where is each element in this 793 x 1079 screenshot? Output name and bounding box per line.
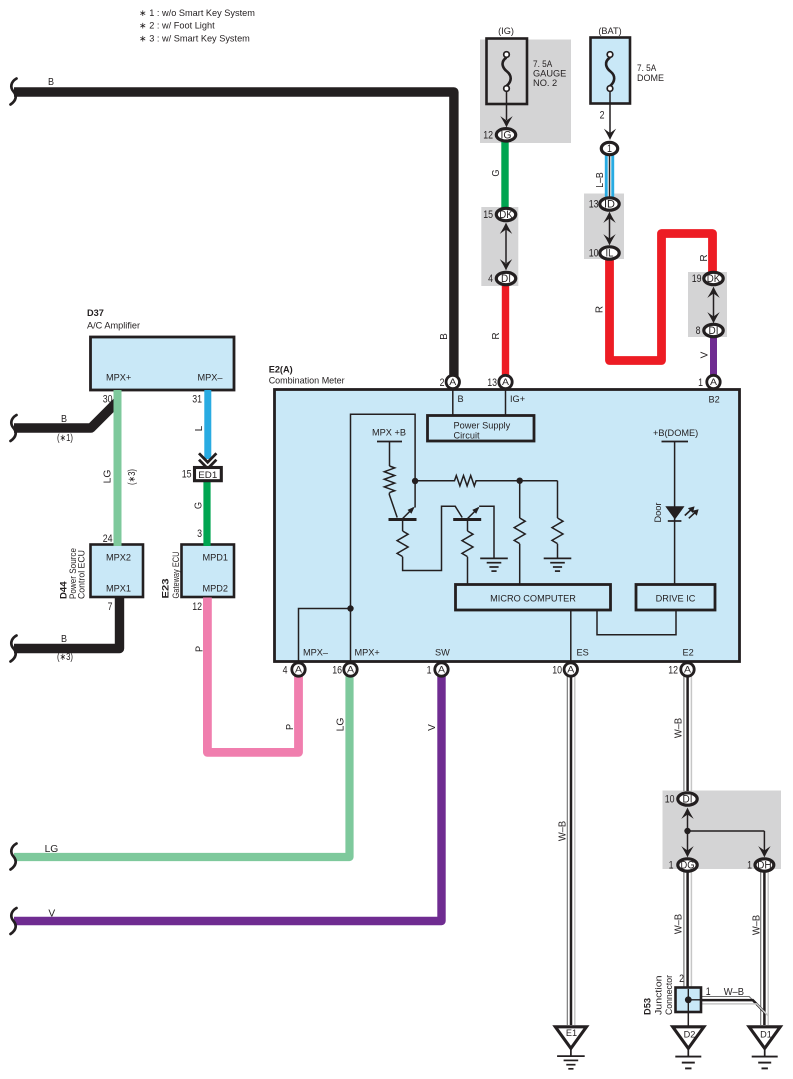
svg-text:DI: DI bbox=[501, 273, 511, 285]
svg-text:R: R bbox=[491, 332, 502, 339]
svg-text:DG: DG bbox=[681, 860, 695, 872]
svg-text:7. 5A: 7. 5A bbox=[533, 59, 553, 69]
svg-text:30: 30 bbox=[103, 394, 113, 406]
svg-text:1: 1 bbox=[747, 860, 752, 872]
svg-text:ID: ID bbox=[604, 199, 615, 211]
svg-text:E1: E1 bbox=[566, 1028, 577, 1038]
svg-text:MPX2: MPX2 bbox=[106, 553, 131, 563]
svg-text:D53: D53 bbox=[643, 998, 653, 1015]
svg-text:10: 10 bbox=[665, 794, 675, 806]
svg-text:ES: ES bbox=[577, 648, 589, 658]
svg-text:E23: E23 bbox=[161, 579, 171, 599]
svg-text:Control ECU: Control ECU bbox=[77, 550, 87, 599]
svg-text:∗ 2 : w/ Foot Light: ∗ 2 : w/ Foot Light bbox=[139, 21, 215, 31]
svg-text:1: 1 bbox=[607, 143, 612, 155]
svg-text:2: 2 bbox=[440, 377, 445, 389]
svg-text:(∗3): (∗3) bbox=[127, 469, 138, 485]
svg-text:A: A bbox=[684, 665, 692, 675]
svg-text:DH: DH bbox=[757, 860, 772, 872]
svg-text:A: A bbox=[502, 377, 510, 387]
svg-text:MICRO COMPUTER: MICRO COMPUTER bbox=[490, 594, 576, 604]
svg-text:MPD1: MPD1 bbox=[203, 553, 229, 563]
svg-text:4: 4 bbox=[283, 665, 288, 677]
svg-text:3: 3 bbox=[197, 528, 202, 540]
svg-text:MPX–: MPX– bbox=[303, 648, 329, 658]
svg-text:DK: DK bbox=[707, 273, 721, 285]
svg-text:R: R bbox=[595, 306, 606, 313]
svg-text:IG: IG bbox=[501, 129, 512, 141]
svg-text:12: 12 bbox=[483, 129, 493, 141]
svg-text:D1: D1 bbox=[760, 1030, 772, 1040]
svg-text:DI: DI bbox=[683, 794, 693, 806]
svg-text:ED1: ED1 bbox=[198, 470, 217, 480]
svg-text:W–B: W–B bbox=[674, 914, 685, 934]
svg-text:MPD2: MPD2 bbox=[203, 584, 229, 594]
svg-text:A: A bbox=[347, 665, 355, 675]
svg-text:R: R bbox=[699, 254, 710, 261]
svg-text:4: 4 bbox=[488, 273, 493, 285]
svg-text:L–B: L–B bbox=[595, 172, 606, 188]
svg-text:A: A bbox=[710, 377, 718, 387]
svg-text:Combination Meter: Combination Meter bbox=[269, 375, 345, 385]
svg-text:B: B bbox=[439, 333, 450, 340]
svg-text:A: A bbox=[295, 665, 303, 675]
svg-text:1: 1 bbox=[427, 665, 432, 677]
svg-text:B: B bbox=[458, 394, 464, 404]
svg-text:13: 13 bbox=[487, 377, 497, 389]
svg-text:DI: DI bbox=[709, 325, 719, 337]
svg-text:W–B: W–B bbox=[674, 718, 685, 738]
svg-text:16: 16 bbox=[332, 665, 342, 677]
svg-text:B: B bbox=[61, 414, 67, 425]
svg-text:(∗1): (∗1) bbox=[57, 433, 73, 444]
svg-text:Junction: Junction bbox=[654, 976, 664, 1016]
svg-text:D37: D37 bbox=[87, 308, 104, 318]
svg-text:LG: LG bbox=[103, 470, 114, 484]
svg-text:12: 12 bbox=[192, 601, 202, 613]
svg-text:∗ 3 : w/ Smart Key System: ∗ 3 : w/ Smart Key System bbox=[139, 33, 250, 43]
svg-text:W–B: W–B bbox=[724, 987, 744, 998]
svg-text:(BAT): (BAT) bbox=[598, 26, 621, 36]
svg-text:7: 7 bbox=[108, 601, 113, 613]
svg-text:A: A bbox=[567, 665, 575, 675]
svg-text:(∗3): (∗3) bbox=[57, 652, 73, 663]
svg-text:DK: DK bbox=[499, 209, 513, 221]
svg-text:31: 31 bbox=[192, 394, 202, 406]
svg-text:E2(A): E2(A) bbox=[269, 364, 293, 374]
svg-text:A: A bbox=[438, 665, 446, 675]
svg-text:2: 2 bbox=[600, 110, 605, 122]
svg-text:IL: IL bbox=[606, 248, 614, 260]
svg-text:+B(DOME): +B(DOME) bbox=[653, 428, 698, 438]
svg-text:L: L bbox=[194, 425, 205, 431]
svg-text:12: 12 bbox=[668, 665, 678, 677]
svg-text:1: 1 bbox=[669, 860, 674, 872]
svg-text:1: 1 bbox=[698, 377, 703, 389]
svg-text:Power Supply: Power Supply bbox=[454, 421, 511, 431]
svg-text:LG: LG bbox=[45, 844, 59, 855]
svg-text:NO. 2: NO. 2 bbox=[533, 78, 557, 88]
svg-text:∗ 1 : w/o Smart Key System: ∗ 1 : w/o Smart Key System bbox=[139, 8, 255, 18]
svg-text:V: V bbox=[48, 909, 55, 920]
svg-text:7. 5A: 7. 5A bbox=[637, 63, 657, 73]
svg-text:MPX+: MPX+ bbox=[355, 648, 380, 658]
svg-text:10: 10 bbox=[552, 665, 562, 677]
svg-text:A/C Amplifier: A/C Amplifier bbox=[87, 321, 140, 331]
svg-text:V: V bbox=[427, 724, 438, 731]
svg-text:V: V bbox=[700, 351, 711, 358]
svg-text:15: 15 bbox=[483, 209, 493, 221]
svg-text:15: 15 bbox=[182, 469, 192, 481]
svg-text:LG: LG bbox=[336, 718, 347, 732]
svg-text:D2: D2 bbox=[684, 1030, 696, 1040]
svg-text:P: P bbox=[285, 724, 296, 730]
svg-text:MPX1: MPX1 bbox=[106, 584, 131, 594]
svg-text:2: 2 bbox=[679, 973, 684, 985]
svg-text:Door: Door bbox=[653, 503, 663, 523]
svg-text:10: 10 bbox=[589, 248, 599, 260]
svg-text:SW: SW bbox=[435, 648, 450, 658]
svg-text:G: G bbox=[491, 169, 502, 176]
svg-text:19: 19 bbox=[692, 273, 702, 285]
svg-text:P: P bbox=[195, 646, 206, 652]
svg-text:B2: B2 bbox=[709, 395, 720, 405]
svg-text:A: A bbox=[449, 377, 457, 387]
svg-text:Circuit: Circuit bbox=[454, 431, 480, 441]
svg-text:G: G bbox=[194, 502, 205, 509]
svg-text:13: 13 bbox=[589, 199, 599, 211]
svg-text:IG+: IG+ bbox=[510, 394, 525, 404]
svg-text:(IG): (IG) bbox=[498, 26, 514, 36]
svg-text:MPX–: MPX– bbox=[198, 373, 224, 383]
svg-text:24: 24 bbox=[103, 533, 113, 545]
svg-text:1: 1 bbox=[706, 986, 711, 998]
svg-text:GAUGE: GAUGE bbox=[533, 69, 566, 79]
svg-text:DRIVE IC: DRIVE IC bbox=[656, 594, 696, 604]
svg-text:W–B: W–B bbox=[557, 821, 568, 841]
svg-text:B: B bbox=[48, 77, 54, 88]
svg-text:E2: E2 bbox=[683, 648, 694, 658]
svg-text:MPX +B: MPX +B bbox=[372, 428, 406, 438]
svg-text:Connector: Connector bbox=[664, 975, 674, 1015]
svg-text:8: 8 bbox=[696, 325, 701, 337]
svg-text:MPX+: MPX+ bbox=[106, 373, 131, 383]
svg-text:DOME: DOME bbox=[637, 73, 664, 83]
svg-text:B: B bbox=[61, 634, 67, 645]
svg-text:Gateway ECU: Gateway ECU bbox=[171, 552, 181, 599]
svg-text:D44: D44 bbox=[59, 581, 69, 599]
svg-text:W–B: W–B bbox=[752, 915, 763, 935]
